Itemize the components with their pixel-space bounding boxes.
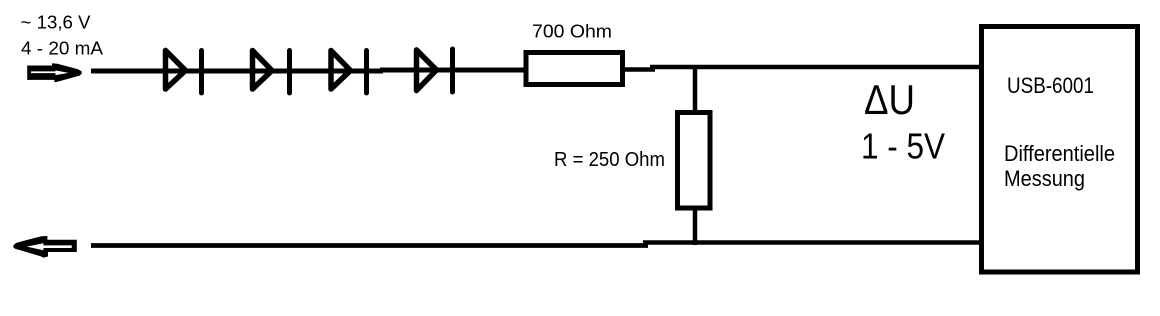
wire: R1 to node A [624,67,655,72]
diode D2 [253,51,290,94]
svg-text:Messung: Messung [1004,166,1085,191]
diode D3 [331,51,367,94]
svg-text:1 - 5V: 1 - 5V [861,126,946,167]
svg-text:~ 13,6 V: ~ 13,6 V [21,12,92,33]
svg-text:USB-6001: USB-6001 [1007,73,1094,98]
svg-text:ΔU: ΔU [864,76,915,123]
svg-text:4 - 20 mA: 4 - 20 mA [21,38,104,59]
wire: bottom rail left (return to arrow) [91,243,648,248]
current input arrow (points right) [27,63,82,82]
current return arrow (points left) [13,236,77,258]
wire: D4 to resistor R1 [453,68,527,73]
wire: bottom rail right (to box U1) [643,240,981,245]
node A junction: vertical wire down to R2 [693,67,698,113]
svg-text:Differentielle: Differentielle [1004,141,1115,166]
resistor R2 250 Ohm [678,113,711,209]
svg-text:R = 250 Ohm: R = 250 Ohm [554,149,665,171]
wire: joint segment D3 to D4 [380,68,455,73]
wire: R2 bottom lead to bottom rail [693,208,698,245]
diode D1 [166,51,202,94]
resistor R1 700 Ohm [526,53,623,85]
wire: input arrow through diodes D1-D3 [91,69,383,74]
svg-text:700 Ohm: 700 Ohm [532,22,612,42]
diode D4 [417,49,453,92]
DAQ box U1 [982,27,1138,273]
wire: node A to box U1 (top rail right) [650,65,981,70]
